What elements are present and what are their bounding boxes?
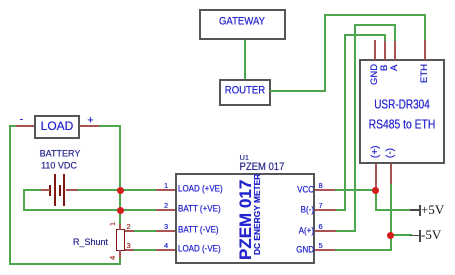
wire shunt4 down — [119, 258, 121, 266]
wire -5V run — [390, 234, 412, 236]
battery BT1 — [49, 185, 51, 196]
PZEM pin 2 BATT (+VE) — [155, 209, 175, 211]
U1 label — [240, 154, 250, 162]
110 VDC label — [41, 161, 77, 170]
junction battery-/shunt — [117, 207, 124, 214]
junction VCC/(+) — [372, 187, 379, 194]
PZEM pin 1 LOAD (+VE) — [155, 189, 175, 191]
ROUTER box — [219, 79, 271, 106]
junction battery+/load+ — [117, 187, 124, 194]
USR pin (+) (bottom) — [375, 164, 377, 191]
shunt pin 2 — [125, 230, 135, 232]
wire GATEWAY-ROUTER — [244, 40, 246, 79]
wire battery- U — [23, 189, 41, 191]
wire VCC to (+) — [335, 189, 376, 191]
shunt body — [116, 229, 125, 251]
wire A bracket — [354, 24, 396, 26]
PZEM pin 6 A(+) — [315, 230, 336, 232]
+5V power flag — [410, 209, 420, 211]
LOAD box — [34, 115, 81, 139]
shunt pin 3 — [125, 249, 135, 251]
converter USR-DR304 box — [359, 59, 445, 164]
wire shunt3 to pin4 — [134, 249, 156, 251]
PZEM 017 big vertical — [238, 179, 254, 259]
wire battery+ row — [78, 189, 156, 191]
GATEWAY box — [199, 9, 286, 40]
LOAD right stub — [80, 125, 100, 127]
PZEM box U1 — [175, 173, 316, 264]
wire shunt2 to pin3 — [134, 230, 156, 232]
wire B bracket — [344, 34, 386, 36]
battery right lead — [66, 189, 80, 191]
PZEM pin 4 LOAD (-VE) — [155, 249, 175, 251]
LOAD left stub — [15, 125, 34, 127]
USR pin ETH (top) — [424, 40, 426, 60]
PZEM 017 label — [240, 162, 285, 173]
wire row2 to BATT(+VE) — [23, 209, 156, 211]
DC ENERGY METER vertical — [253, 173, 262, 254]
PZEM pin 5 GND — [315, 249, 336, 251]
USR pin B (top) — [384, 40, 386, 60]
wire +5V drop — [375, 190, 377, 210]
battery left lead — [40, 189, 50, 191]
BATTERY label — [40, 150, 81, 159]
USR pin GND (top, unconnected) — [374, 40, 376, 60]
LOAD - label — [20, 115, 24, 126]
PZEM pin 8 VCC — [315, 189, 336, 191]
USR pin (-) (bottom) — [390, 164, 392, 185]
wire LOAD right down — [99, 125, 121, 127]
LOAD + label — [87, 115, 93, 126]
shunt pin 4 — [119, 250, 121, 259]
wire LOAD left down — [9, 125, 16, 127]
USR pin A (top) — [394, 40, 396, 60]
wire ROUTER to ETH — [270, 90, 326, 92]
wire GND run — [335, 249, 391, 251]
-5V power flag — [410, 235, 420, 237]
wire (-) down — [390, 184, 392, 251]
wire bottom — [9, 263, 121, 265]
shunt pin 1 — [119, 224, 121, 230]
PZEM pin 3 BATT (-VE) — [155, 230, 175, 232]
R_Shunt label — [73, 238, 108, 247]
PZEM pin 7 B(-) — [315, 209, 336, 211]
junction (-)/GND — [387, 232, 394, 239]
